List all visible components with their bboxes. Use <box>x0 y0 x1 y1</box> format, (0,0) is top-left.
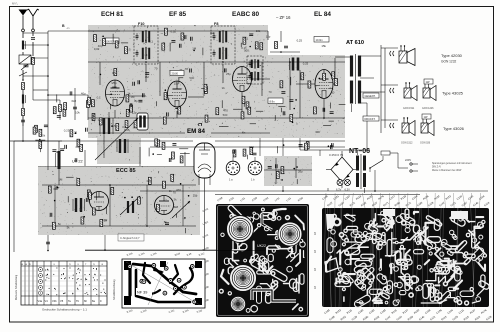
svg-text:25p: 25p <box>112 81 117 85</box>
svg-text:10k: 10k <box>41 134 46 138</box>
svg-text:Meßwerte Schaltstellung: Meßwerte Schaltstellung <box>15 274 18 300</box>
svg-text:EF 85: EF 85 <box>169 11 186 18</box>
svg-text:1W: 1W <box>426 80 430 84</box>
mains switch <box>369 156 383 172</box>
scattered parts: main band right <box>268 72 345 126</box>
labels above NF39 board <box>127 253 206 257</box>
svg-text:Schaltbildzeichnung: Schaltbildzeichnung <box>113 279 116 300</box>
connector plugs <box>390 51 394 128</box>
svg-text:8 8n: 8 8n <box>270 99 276 103</box>
svg-text:EABC 80: EABC 80 <box>232 11 259 18</box>
switch box <box>19 55 31 64</box>
fine print block <box>432 162 472 172</box>
spiral coil 3 on UK22 <box>230 265 257 292</box>
svg-text:0,1: 0,1 <box>112 71 116 75</box>
svg-text:25p: 25p <box>174 82 179 86</box>
svg-text:0,02: 0,02 <box>94 47 100 51</box>
shaded background: IF amplifier block (top band) <box>88 25 268 58</box>
svg-text:1M: 1M <box>145 75 150 79</box>
loudspeaker type 42030 <box>399 45 415 65</box>
wires: tone network <box>264 158 312 184</box>
triode-hexode ECH81 <box>106 80 125 106</box>
svg-text:1 b: 1 b <box>251 178 255 182</box>
svg-text:EL 84: EL 84 <box>314 11 331 18</box>
wires: supply bus <box>300 138 370 156</box>
capacitor C4 <box>21 120 25 122</box>
designators between boards <box>315 231 317 289</box>
svg-text:Spannungen gemessen mit Instru: Spannungen gemessen mit Instrument <box>432 162 472 165</box>
svg-text:25p: 25p <box>298 170 303 174</box>
shaded background: AM input bandfilter block <box>97 112 141 164</box>
IF transformer F8 <box>211 26 235 64</box>
wires: below tuner <box>85 235 230 251</box>
wires: main block buses <box>88 31 345 133</box>
svg-text:3k: 3k <box>79 207 83 211</box>
svg-text:0,1: 0,1 <box>244 36 248 40</box>
svg-text:F10: F10 <box>138 22 145 26</box>
wires: AT610 connections <box>335 56 385 150</box>
scattered parts: main band left <box>92 69 157 131</box>
component labels above main board <box>322 195 491 208</box>
FM input coil <box>56 141 77 185</box>
svg-text:70: 70 <box>268 90 272 94</box>
svg-text:25p: 25p <box>193 194 198 198</box>
parts in ZF16 area <box>270 31 300 53</box>
labels below NF39 board <box>127 310 204 314</box>
svg-text:25p: 25p <box>226 72 231 76</box>
svg-text:30: 30 <box>331 91 335 95</box>
svg-text:6F: 6F <box>84 299 87 303</box>
svg-text:Type 42030: Type 42030 <box>441 53 463 58</box>
loudspeaker pair type 43026 <box>402 117 415 135</box>
svg-text:DIN Z·/V: DIN Z·/V <box>432 167 441 169</box>
resistor R2 <box>22 83 25 90</box>
power transformer windings <box>356 150 366 193</box>
svg-text:6k8: 6k8 <box>210 31 215 35</box>
spiral coil 4 on UK22 <box>231 297 246 312</box>
wires: bottom distribution bus <box>140 170 488 195</box>
AM antenna symbol <box>19 10 28 32</box>
svg-text:1M: 1M <box>192 47 197 51</box>
svg-text:5n: 5n <box>58 222 62 226</box>
resistor input <box>32 58 35 65</box>
svg-text:C Abgleich 10,7: C Abgleich 10,7 <box>120 236 140 240</box>
coil L1 <box>22 41 24 50</box>
fuse <box>381 151 398 155</box>
svg-text:8p: 8p <box>135 99 139 103</box>
svg-text:V4a: V4a <box>38 299 43 303</box>
svg-text:6k8: 6k8 <box>72 99 77 103</box>
boxed labels Gegent <box>363 93 379 121</box>
output transformer AT 610 windings <box>350 54 361 104</box>
boxed label above EL84 <box>314 37 329 43</box>
svg-text:1W: 1W <box>424 115 428 119</box>
svg-text:0,1: 0,1 <box>97 96 101 100</box>
coil L2 <box>22 95 24 104</box>
bridge rectifier <box>326 151 356 188</box>
tuning gang capacitor <box>137 113 148 130</box>
svg-text:0,25: 0,25 <box>64 128 70 132</box>
svg-text:0,25: 0,25 <box>124 128 130 132</box>
shaded background: main AM/FM amplifier block <box>88 55 345 138</box>
svg-text:0,02: 0,02 <box>171 30 177 34</box>
svg-text:Werte in Klammern bei UKW: Werte in Klammern bei UKW <box>432 169 462 172</box>
boxed label under ECH81 <box>170 71 184 76</box>
leader lines above main board <box>324 193 481 208</box>
svg-text:12p: 12p <box>266 35 271 39</box>
wires: left column cross links <box>23 44 88 120</box>
boxed label mid <box>268 98 283 104</box>
socket stubs <box>229 157 255 182</box>
svg-text:F8: F8 <box>214 22 218 26</box>
svg-text:GON 1226: GON 1226 <box>422 107 434 110</box>
svg-text:ᴍˣ/₅: ᴍˣ/₅ <box>12 2 19 6</box>
labels above UK22 board <box>217 196 304 202</box>
svg-text:216/0: 216/0 <box>172 72 179 76</box>
wires: tuner block <box>42 184 196 227</box>
tuning gang arrow <box>95 118 138 160</box>
boxed label pickup <box>104 38 119 44</box>
svg-text:GON 1512: GON 1512 <box>401 142 413 145</box>
svg-text:B: B <box>62 24 65 28</box>
triple diode triode EABC80 <box>233 67 252 92</box>
svg-text:500: 500 <box>244 48 249 52</box>
svg-text:10k: 10k <box>256 29 261 33</box>
svg-text:GON 1232: GON 1232 <box>441 60 456 64</box>
wires: antenna feed <box>23 31 120 170</box>
svg-text:0,5: 0,5 <box>147 179 151 183</box>
svg-text:70: 70 <box>173 191 177 195</box>
wires: intermediate band <box>10 62 345 156</box>
svg-text:V4: V4 <box>45 299 49 303</box>
wires: left drop below tuner <box>46 235 50 251</box>
ratio detector transformer <box>247 56 263 84</box>
svg-text:10.0m: 10.0m <box>316 38 323 42</box>
horizontal rule above NF39 <box>85 250 265 252</box>
svg-text:Gedruckte Schaltanordnung – 1:: Gedruckte Schaltanordnung – 1:1 <box>42 308 87 312</box>
tuner box top edge <box>38 165 200 167</box>
svg-text:70: 70 <box>185 67 189 71</box>
svg-text:470: 470 <box>176 188 181 192</box>
svg-text:0,02: 0,02 <box>98 118 104 122</box>
svg-text:V4b: V4b <box>52 299 57 303</box>
UK22 left side labels <box>202 207 210 304</box>
svg-text:220V: 220V <box>405 158 411 162</box>
FM dipole antenna symbol <box>27 9 38 32</box>
shaded background: small tone network block <box>264 156 312 186</box>
svg-text:70: 70 <box>154 66 158 70</box>
svg-text:500: 500 <box>189 76 194 80</box>
wires: left chain <box>14 65 62 252</box>
choke L20 <box>290 58 300 71</box>
svg-text:0,5: 0,5 <box>127 47 131 51</box>
matching box 1W <box>424 79 433 84</box>
trimmer with arrow <box>21 62 31 71</box>
output pentode EL84 <box>315 70 333 99</box>
resistor R5 <box>59 105 62 112</box>
svg-text:GON 026: GON 026 <box>420 142 431 145</box>
spiral coil 2 on UK22 <box>278 222 302 246</box>
ECC85 triode b <box>155 196 174 215</box>
label EM 84 (redraw) <box>185 126 211 135</box>
wires: stubs above tuner block <box>85 147 205 251</box>
svg-text:SW3: SW3 <box>391 249 400 254</box>
component value annotations <box>55 29 327 230</box>
capacitor C7 <box>73 107 77 109</box>
svg-text:UK 22: UK 22 <box>72 160 83 164</box>
voltage table <box>21 261 107 305</box>
IF transformer F10 <box>134 26 158 64</box>
svg-text:2k: 2k <box>222 86 226 90</box>
tuner trimmer arrows <box>120 196 190 218</box>
resistor R6 <box>87 101 90 108</box>
ECC85 triode a <box>90 192 109 211</box>
svg-text:0,1: 0,1 <box>149 39 153 43</box>
mains plug <box>398 153 418 172</box>
svg-text:₄₂₅: ₄₂₅ <box>67 27 70 30</box>
svg-text:1 a: 1 a <box>229 178 233 182</box>
svg-text:– ZF 16: – ZF 16 <box>276 15 291 20</box>
svg-text:AT 610: AT 610 <box>346 40 364 46</box>
switch contact <box>19 70 27 81</box>
svg-text:0,25: 0,25 <box>297 39 303 43</box>
scattered parts: left column <box>33 107 66 152</box>
svg-text:NF 39: NF 39 <box>137 291 147 295</box>
svg-text:ECC 85: ECC 85 <box>116 168 136 174</box>
component labels below main board <box>324 309 493 322</box>
svg-text:5n: 5n <box>242 131 246 135</box>
svg-text:40p: 40p <box>75 145 80 149</box>
svg-text:UK22: UK22 <box>257 244 266 248</box>
capacitor input <box>31 38 35 40</box>
svg-text:ECH 81: ECH 81 <box>101 11 124 18</box>
svg-text:12p: 12p <box>132 111 137 115</box>
dial lamps <box>337 180 343 186</box>
tube socket view Ta <box>226 161 240 175</box>
svg-text:15k: 15k <box>321 44 326 48</box>
tube socket view Tb <box>248 161 262 175</box>
svg-text:DRUCKT.: DRUCKT. <box>365 118 376 121</box>
scattered parts: main band mid <box>163 68 231 130</box>
svg-text:Type 43025: Type 43025 <box>442 91 464 96</box>
printed circuit board: main chassis board <box>322 208 490 309</box>
scattered parts: tuner block <box>48 174 189 233</box>
svg-text:10k: 10k <box>75 110 80 114</box>
svg-text:15k: 15k <box>112 124 117 128</box>
spiral coil 1 on UK22 <box>227 216 254 243</box>
svg-text:40p: 40p <box>81 92 86 96</box>
svg-text:0,25: 0,25 <box>303 62 309 66</box>
IF pentode EF85 <box>168 81 187 107</box>
svg-text:0 250 0 75: 0 250 0 75 <box>329 153 344 157</box>
matching box 2 <box>422 114 431 119</box>
svg-text:GON 1511: GON 1511 <box>403 107 415 110</box>
scattered parts: tone network block <box>268 164 303 184</box>
svg-text:300: 300 <box>315 130 320 134</box>
loudspeaker pair type 43025 <box>404 82 417 100</box>
svg-text:500: 500 <box>223 113 228 117</box>
scattered parts: top IF band <box>94 28 263 55</box>
scattered parts: intermediate band <box>149 139 333 163</box>
svg-text:GEGENT.: GEGENT. <box>365 95 376 98</box>
shaded background: ECC85 FM tuner block <box>38 166 200 235</box>
printed circuit board UK22 <box>216 204 309 317</box>
tuning indicator EM84 <box>194 143 215 191</box>
resistor R3 <box>22 109 25 116</box>
svg-text:500/325: 500/325 <box>106 39 116 43</box>
svg-text:V5: V5 <box>60 299 64 303</box>
svg-text:EM 84: EM 84 <box>187 128 205 135</box>
speaker bus wires <box>381 45 398 133</box>
printed circuit board NF39 (audio) <box>122 259 205 308</box>
ferrite rod antenna coils <box>100 112 128 158</box>
scattered parts: lower left <box>55 91 94 153</box>
tuner coupling coils <box>73 198 134 213</box>
svg-text:Type 43026: Type 43026 <box>443 126 465 131</box>
svg-text:6k8: 6k8 <box>174 205 179 209</box>
scattered parts: detector area <box>233 96 263 124</box>
tuner caption <box>118 234 144 241</box>
svg-text:470: 470 <box>223 109 228 113</box>
